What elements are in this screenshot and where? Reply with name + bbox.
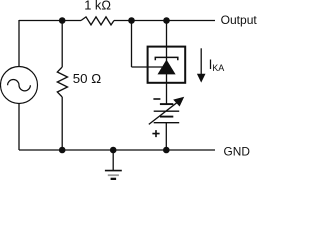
svg-text:Output: Output <box>221 13 257 27</box>
label minus <box>153 98 160 100</box>
wire: bottom rail <box>19 149 215 151</box>
label plus <box>152 130 159 137</box>
resistor R2 50 Ohm zigzag <box>57 67 67 97</box>
wire: left vertical upper (source to top rail) <box>18 20 20 67</box>
node: junction dot bottom anode <box>163 147 170 154</box>
battery V2 plate 4 long <box>154 122 180 124</box>
ground bar 1 <box>105 170 122 172</box>
current arrow I_KA head <box>197 74 206 83</box>
battery variable arrow shaft <box>149 101 179 124</box>
svg-text:1 kΩ: 1 kΩ <box>84 0 111 13</box>
battery V2 plate 3 short <box>160 116 173 118</box>
battery variable arrow head <box>173 97 184 107</box>
svg-text:50 Ω: 50 Ω <box>73 71 102 86</box>
wire: 50 Ohm branch upper <box>61 21 63 68</box>
ground symbol stem <box>112 150 114 171</box>
battery V2 plate 2 long <box>154 110 180 112</box>
op-amp U1 shunt regulator box <box>148 47 186 83</box>
node: junction dot top reference <box>128 17 135 24</box>
node: junction dot bottom ground <box>110 147 117 154</box>
node: junction dot bottom 50 Ohm <box>59 147 66 154</box>
U1 cathode bar with bent ends <box>155 57 178 60</box>
wire: cathode branch vertical (top rail through box to battery) <box>166 21 168 105</box>
ground bar 2 <box>108 174 119 176</box>
AC source V1 circle <box>1 67 38 104</box>
battery V2 plate 1 short <box>160 103 173 105</box>
wire: reference branch vertical <box>131 21 133 68</box>
resistor R1 1 kOhm zigzag <box>81 17 114 25</box>
wire: top rail left segment <box>19 20 81 22</box>
AC source sine wave <box>8 80 31 91</box>
wire: top rail right segment <box>114 20 215 22</box>
wire: 50 Ohm branch lower <box>61 97 63 150</box>
current arrow I_KA shaft <box>200 48 202 74</box>
node: junction dot top cathode <box>163 17 170 24</box>
U1 anode triangle <box>158 60 176 75</box>
wire: reference branch horizontal into box <box>132 66 165 68</box>
node: junction dot top 50 Ohm <box>59 17 66 24</box>
wire: left vertical lower (source to bottom rail) <box>18 103 20 150</box>
svg-text:GND: GND <box>224 144 251 158</box>
svg-text:KA: KA <box>212 63 224 73</box>
wire: battery to bottom rail <box>165 123 167 150</box>
ground bar 3 <box>111 178 117 180</box>
